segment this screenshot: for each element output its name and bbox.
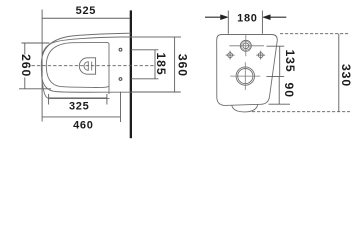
wall line <box>130 10 132 138</box>
pan outer profile (top edge, front curve, bottom skirt) <box>41 33 131 98</box>
dim 180 right extension <box>261 11 263 34</box>
dim 525 extension line (shared front ext for 525/460) <box>41 10 43 122</box>
inlet port circle (side view) <box>119 48 122 51</box>
dim 260 line bottom segment <box>24 78 26 89</box>
rear view body outline <box>217 35 278 106</box>
inlet outer circle <box>240 40 251 51</box>
right fixing hole <box>256 51 265 60</box>
drain outer circle <box>236 67 254 85</box>
dim 135 bottom tick <box>267 76 285 78</box>
flush valve D-shape outer <box>79 58 95 74</box>
inlet crosshair vertical <box>245 35 247 56</box>
drain crosshair vertical <box>244 62 246 90</box>
pan inner rim profile <box>46 42 109 87</box>
svg-text:360: 360 <box>176 54 190 77</box>
svg-text:525: 525 <box>76 5 96 17</box>
svg-text:330: 330 <box>339 64 353 87</box>
flush valve inner arc <box>84 62 88 71</box>
dim 185 line <box>154 50 156 79</box>
dim 260 bottom tick <box>19 88 51 90</box>
dim 325 left tick <box>48 94 50 105</box>
top reference dashed line <box>280 33 349 35</box>
dim 460 line <box>42 116 120 118</box>
inlet middle circle <box>241 41 250 50</box>
svg-text:180: 180 <box>237 13 257 25</box>
dim 325 right tick <box>106 94 108 105</box>
outlet port circle (side view) <box>119 78 122 81</box>
dim 135 line <box>279 46 281 76</box>
left fixing hole <box>226 51 235 60</box>
dim 460 right extension <box>120 92 122 122</box>
dim 180 right arrow <box>270 16 287 18</box>
svg-text:325: 325 <box>69 100 89 112</box>
svg-text:260: 260 <box>19 54 33 77</box>
dim 90 line <box>278 77 280 105</box>
dim 260 line top segment <box>24 43 26 55</box>
inlet inner circle <box>243 43 249 49</box>
flush valve inner vertical <box>91 62 93 71</box>
dim 525 line <box>42 17 130 19</box>
trap bump arc <box>232 104 258 112</box>
dim 360 bottom tick <box>131 91 181 93</box>
dim 180 left extension <box>227 11 229 34</box>
bottom reference dashed line <box>252 111 350 113</box>
dim 325 line <box>49 97 107 99</box>
dim 90 bottom tick <box>269 103 291 105</box>
dim 135 top tick <box>267 45 285 47</box>
centerline dashed <box>32 65 155 67</box>
inlet crosshair horizontal <box>229 45 264 47</box>
dim 360 line <box>174 37 176 92</box>
svg-text:185: 185 <box>154 52 168 75</box>
dim 185 top tick <box>131 49 158 51</box>
seat back vertical line <box>108 44 110 94</box>
dim 180 left arrow <box>205 16 221 18</box>
svg-text:135: 135 <box>283 49 297 72</box>
dim 260 top tick <box>22 42 50 44</box>
pan middle bottom curve to wall <box>42 79 131 92</box>
seat rim top line (continues as 360 top reference) <box>43 37 181 54</box>
dim 185 bottom tick <box>131 78 158 80</box>
svg-text:90: 90 <box>282 83 296 98</box>
dim 330 line <box>338 34 340 112</box>
drain crosshair horizontal <box>230 75 260 77</box>
svg-text:460: 460 <box>73 119 93 131</box>
drain inner circle <box>238 69 253 84</box>
